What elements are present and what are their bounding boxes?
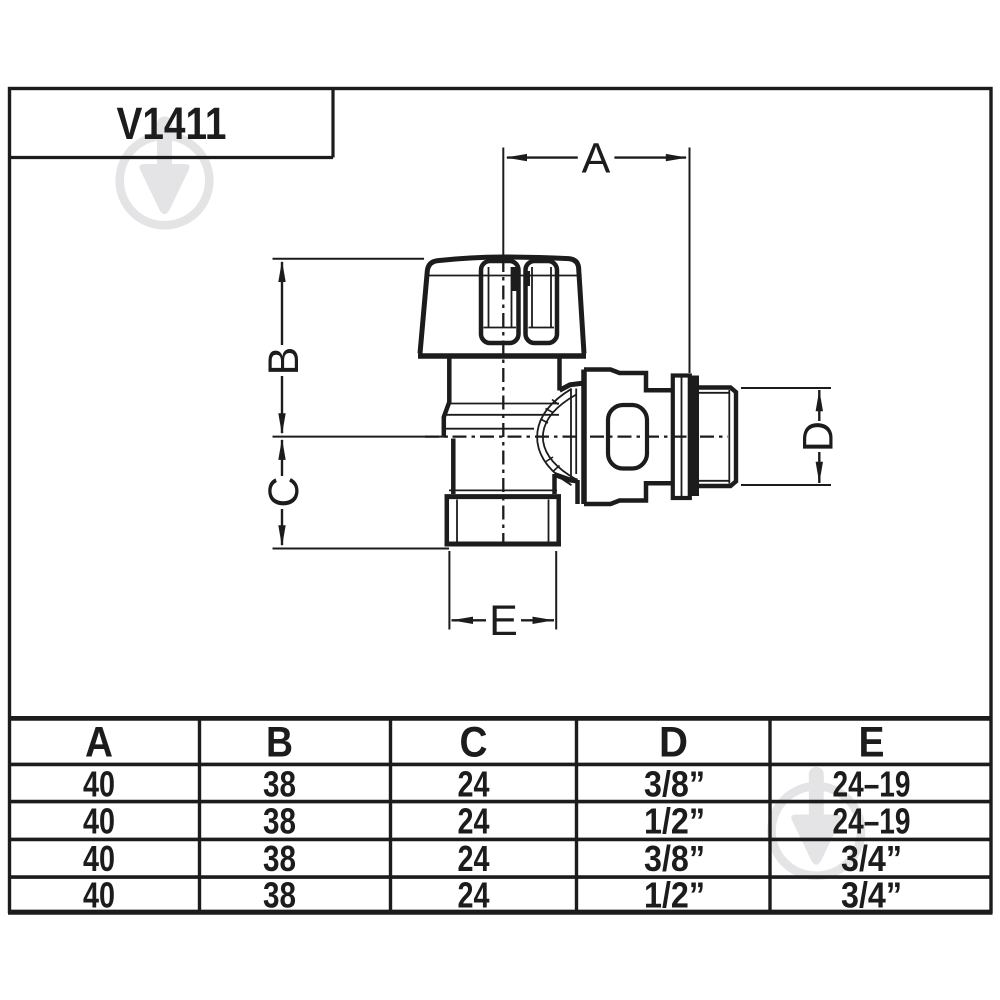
outlet flange (gland nut) <box>584 370 673 505</box>
dimension C <box>273 437 450 549</box>
svg-text:E: E <box>859 719 885 767</box>
dimension B <box>273 259 425 435</box>
title box <box>10 89 334 158</box>
svg-text:40: 40 <box>83 801 115 842</box>
svg-text:40: 40 <box>83 838 115 879</box>
washer / locknut <box>673 376 690 499</box>
tailpiece nut (bottom connection) <box>445 490 562 544</box>
knob bottom band <box>418 353 586 359</box>
dimension A <box>503 148 689 374</box>
table header row <box>85 719 885 767</box>
vertical centerline (valve axis) <box>502 258 504 546</box>
svg-text:C: C <box>260 476 308 507</box>
slot wall shading wedges <box>515 267 529 291</box>
thread undercut black band <box>690 376 699 497</box>
svg-text:C: C <box>460 719 488 767</box>
watermark logo bottom-right <box>772 767 862 876</box>
table grid lines <box>8 718 993 912</box>
svg-text:D: D <box>795 421 843 452</box>
svg-text:A: A <box>582 135 611 183</box>
svg-text:V1411: V1411 <box>117 98 227 149</box>
svg-text:24–19: 24–19 <box>833 764 911 805</box>
dimension E <box>449 551 556 630</box>
knob right slot <box>526 261 558 343</box>
knob outline <box>420 257 584 354</box>
svg-text:38: 38 <box>263 875 296 916</box>
table data rows <box>83 764 911 916</box>
svg-text:E: E <box>489 597 518 645</box>
svg-text:38: 38 <box>263 801 296 842</box>
dimension D <box>741 388 831 485</box>
svg-text:B: B <box>260 347 308 376</box>
svg-text:3/4”: 3/4” <box>841 838 902 879</box>
valve body lower <box>453 439 554 495</box>
svg-text:38: 38 <box>263 838 296 879</box>
svg-text:24: 24 <box>458 801 490 842</box>
svg-text:24: 24 <box>458 838 490 879</box>
svg-text:1/2”: 1/2” <box>644 875 705 916</box>
svg-text:1/2”: 1/2” <box>644 801 705 842</box>
watermark logo top-left <box>120 117 210 226</box>
male thread <box>699 388 737 487</box>
svg-text:38: 38 <box>263 764 296 805</box>
valve body upper (bonnet) <box>444 359 560 438</box>
svg-text:A: A <box>85 719 113 767</box>
svg-text:24: 24 <box>458 764 490 805</box>
svg-text:24–19: 24–19 <box>833 801 911 842</box>
svg-text:24: 24 <box>458 875 490 916</box>
knob top inner line <box>429 275 580 277</box>
outlet funnel (cone to flange) <box>537 383 584 504</box>
horizontal centerline (outlet axis) <box>425 435 728 437</box>
svg-text:40: 40 <box>83 764 115 805</box>
svg-text:40: 40 <box>83 875 115 916</box>
svg-text:3/8”: 3/8” <box>644 838 705 879</box>
knob left slot <box>481 261 519 343</box>
svg-text:3/4”: 3/4” <box>841 875 902 916</box>
svg-text:3/8”: 3/8” <box>644 764 705 805</box>
svg-text:B: B <box>266 719 293 767</box>
svg-text:D: D <box>659 719 688 767</box>
